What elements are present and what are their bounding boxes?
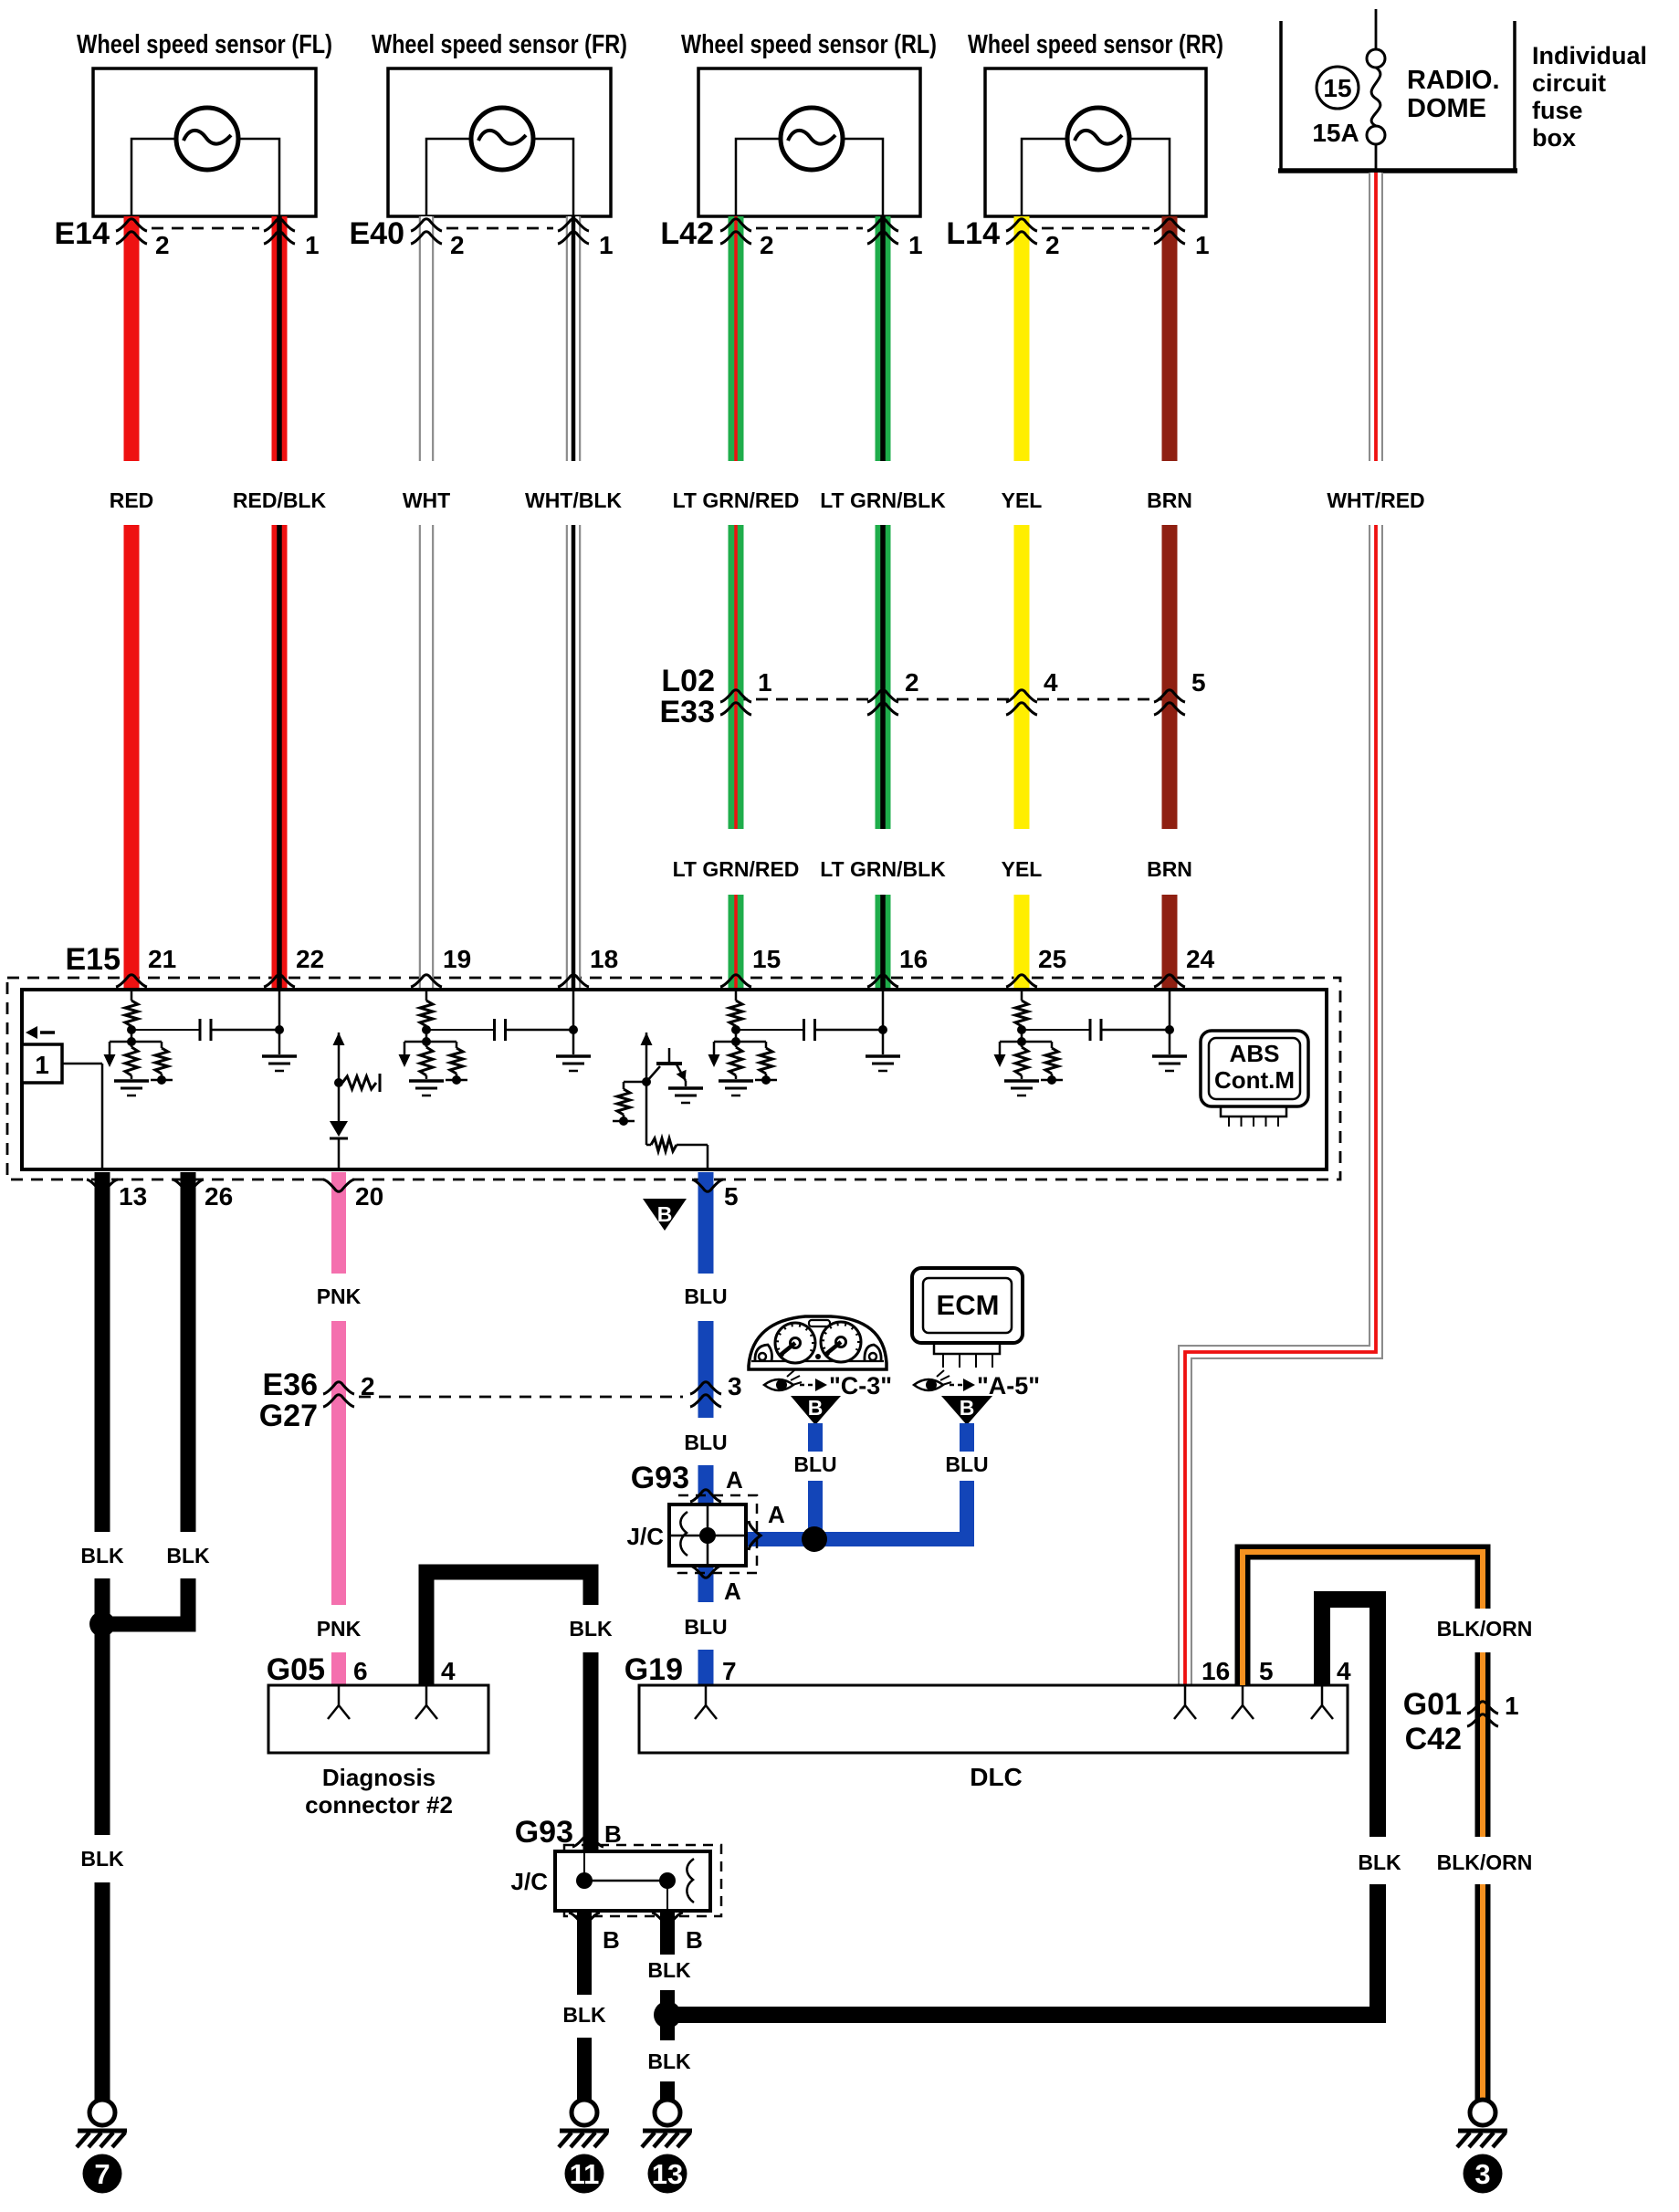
ground 7 bbox=[77, 2100, 127, 2194]
connector E14 label bbox=[55, 216, 110, 251]
resistor (input series, x=806) bbox=[729, 1001, 742, 1047]
svg-text:5: 5 bbox=[1259, 1657, 1274, 1685]
svg-text:BLK: BLK bbox=[166, 1544, 210, 1567]
svg-text:1: 1 bbox=[35, 1051, 49, 1079]
wire label YEL (upper) bbox=[1002, 488, 1043, 512]
svg-text:E14: E14 bbox=[55, 216, 110, 251]
resistor (input series, x=144) bbox=[125, 1001, 138, 1047]
resistor (pull-down, x=1119) bbox=[1015, 1047, 1028, 1079]
svg-text:DOME: DOME bbox=[1407, 94, 1486, 123]
pin number 2 (L02/E33) bbox=[905, 668, 919, 697]
resistor (bias, x=500) bbox=[450, 1042, 463, 1079]
connector E15 terminal pin 22 bbox=[264, 975, 295, 987]
svg-text:E40: E40 bbox=[350, 216, 405, 251]
wire label BLK (above junction) bbox=[647, 1958, 691, 1982]
svg-text:L42: L42 bbox=[660, 216, 714, 251]
pin number 5 (ABS lower connector) bbox=[724, 1182, 739, 1211]
svg-text:2: 2 bbox=[905, 668, 919, 697]
junction box G93 J/C (lower) bbox=[555, 1851, 710, 1911]
svg-text:B: B bbox=[960, 1396, 975, 1420]
wire BLK (ABS-26 to junction) bbox=[102, 1172, 188, 1624]
pin number 1 (E14) bbox=[305, 231, 320, 259]
wire (fuse to box exit) bbox=[1375, 144, 1378, 171]
J/C label (lower G93) bbox=[511, 1868, 549, 1895]
pin number 3 (E36/G27) bbox=[728, 1372, 742, 1400]
svg-text:ECM: ECM bbox=[937, 1289, 1000, 1321]
svg-text:BLU: BLU bbox=[684, 1615, 727, 1639]
svg-text:YEL: YEL bbox=[1002, 857, 1043, 881]
wire (resistor to pin 5) bbox=[707, 1145, 709, 1169]
svg-text:LT GRN/RED: LT GRN/RED bbox=[673, 857, 800, 881]
ground (transistor emitter) bbox=[668, 1088, 703, 1103]
svg-text:G01: G01 bbox=[1403, 1687, 1462, 1722]
wire label WHT (upper) bbox=[403, 488, 450, 512]
node (rail, x=500) bbox=[446, 1075, 467, 1085]
wire BLK (DLC-4 to ground junction) bbox=[1322, 1599, 1378, 2023]
wire (node to capacitor, x=806) bbox=[736, 1029, 804, 1031]
sense arrow (x=782) bbox=[708, 1042, 720, 1067]
pin number 5 (L02/E33) bbox=[1191, 668, 1206, 697]
triangle B (to sheet B) at ABS-5 bbox=[643, 1199, 687, 1231]
svg-text:7: 7 bbox=[94, 2158, 110, 2190]
svg-text:box: box bbox=[1532, 124, 1576, 152]
pin number 6 (G05) bbox=[353, 1657, 368, 1685]
pin number 4 (G05) bbox=[441, 1657, 456, 1685]
individual circuit fuse box bbox=[1278, 21, 1647, 171]
svg-text:15A: 15A bbox=[1312, 119, 1359, 147]
wire BLK (ABS-13 to ground 7) bbox=[95, 1172, 110, 2100]
connector E15 lower terminal at x=371 bbox=[323, 1179, 354, 1191]
wire BLU (ABS-5 to G93 J/C) bbox=[698, 1172, 714, 1504]
resistor (output series to pin 5) bbox=[646, 1082, 708, 1151]
wire label BLU at (773,1428) bbox=[684, 1284, 727, 1308]
node (pin 20 branch) bbox=[334, 1078, 343, 1087]
wheel speed sensor (RR) box bbox=[985, 68, 1206, 216]
connector E14 pin 2 terminals bbox=[116, 219, 147, 244]
resistor (pull-down, x=806) bbox=[729, 1047, 742, 1079]
pin letter B (G93 bottom right) bbox=[686, 1926, 703, 1954]
wire (sensor FL internal) bbox=[131, 139, 279, 216]
resistor (pin 20 branch, horizontal) bbox=[342, 1074, 380, 1092]
wire (node to diode) bbox=[338, 1083, 341, 1121]
connector G19/DLC pin 4 terminal fork bbox=[1311, 1685, 1333, 1719]
pin number 1 (L14) bbox=[1195, 231, 1210, 259]
svg-text:16: 16 bbox=[899, 945, 928, 973]
connector L42 pin 1 terminals bbox=[867, 219, 898, 244]
wire label WHT/RED (upper) bbox=[1327, 488, 1424, 512]
node (base resistor rail) bbox=[613, 1116, 635, 1126]
ground (internal, x=628) bbox=[556, 1056, 591, 1071]
svg-text:18: 18 bbox=[590, 945, 618, 973]
wire PNK (ABS-20 to G05-6) bbox=[331, 1172, 346, 1685]
connector E15 terminal pin 24 bbox=[1154, 975, 1185, 987]
svg-text:4: 4 bbox=[1337, 1657, 1351, 1685]
connector L02/E33 terminal at x=1281 bbox=[1154, 690, 1185, 715]
instrument cluster icon bbox=[749, 1316, 887, 1369]
wire label BRN (mid) bbox=[1147, 857, 1192, 881]
pin number 2 (L42) bbox=[760, 231, 774, 259]
connector E15 terminal pin 21 bbox=[116, 975, 147, 987]
capacitor (filter, x=225.0) bbox=[200, 1019, 211, 1041]
svg-text:G19: G19 bbox=[624, 1652, 683, 1687]
DLC caption bbox=[970, 1763, 1023, 1791]
wire (ABS input from pin at x=1119) bbox=[1021, 990, 1023, 1001]
node (sense, x=1119) bbox=[1000, 1037, 1052, 1046]
junction box G93 J/C bbox=[669, 1504, 746, 1566]
svg-text:BLK: BLK bbox=[80, 1544, 124, 1567]
pin number 26 (ABS lower connector) bbox=[205, 1182, 233, 1211]
pin number 2 (E36/G27) bbox=[361, 1372, 375, 1400]
svg-text:Diagnosis: Diagnosis bbox=[322, 1764, 435, 1791]
connector E15 lower terminal at x=112 bbox=[87, 1179, 118, 1191]
wire label BLU at (773,1790) bbox=[684, 1615, 727, 1639]
wire (return pin to ground, x=1281) bbox=[1169, 990, 1171, 1054]
pin number 25 (E15) bbox=[1038, 945, 1066, 973]
pin number 16 (DLC) bbox=[1202, 1657, 1230, 1685]
svg-text:E36: E36 bbox=[263, 1368, 319, 1402]
connector G19 / DLC box bbox=[639, 1685, 1348, 1753]
wire label BLK at (112,1712) bbox=[80, 1544, 124, 1567]
svg-text:LT GRN/BLK: LT GRN/BLK bbox=[820, 488, 946, 512]
wire BLU (G93 J/C to junction) bbox=[746, 1532, 822, 1546]
wire BLK (G93 J/C to ground 13) bbox=[660, 1911, 675, 2100]
wire label LT GRN/BLK (mid) bbox=[820, 857, 946, 881]
svg-text:15: 15 bbox=[752, 945, 781, 973]
J/C label (upper G93) bbox=[627, 1523, 665, 1550]
pin number 13 (ABS lower connector) bbox=[119, 1182, 147, 1211]
ABS box top border bbox=[22, 988, 1327, 991]
wire (capacitor to return, x=1281) bbox=[1101, 1029, 1170, 1032]
connector E40 pin 2 terminals bbox=[411, 219, 442, 244]
svg-text:BLU: BLU bbox=[684, 1431, 727, 1454]
wire label RED (upper) bbox=[110, 488, 154, 512]
svg-text:13: 13 bbox=[119, 1182, 147, 1211]
ECM module icon bbox=[912, 1268, 1023, 1368]
svg-text:A: A bbox=[726, 1466, 743, 1494]
svg-text:4: 4 bbox=[441, 1657, 456, 1685]
svg-text:BLK/ORN: BLK/ORN bbox=[1437, 1617, 1533, 1641]
pin number 20 (ABS lower connector) bbox=[355, 1182, 383, 1211]
resistor (input series, x=467) bbox=[420, 1001, 433, 1047]
wire label BLK/ORN (upper) bbox=[1437, 1617, 1533, 1641]
svg-text:BLK: BLK bbox=[569, 1617, 613, 1641]
svg-text:J/C: J/C bbox=[627, 1523, 665, 1550]
svg-text:2: 2 bbox=[361, 1372, 375, 1400]
triangle B (ECM) bbox=[941, 1396, 992, 1425]
junction (x=967) bbox=[878, 1025, 887, 1034]
view eye to "C-3" bbox=[764, 1370, 892, 1400]
wire YEL (L14-2 to E15-25) bbox=[1014, 216, 1030, 990]
svg-text:BLK: BLK bbox=[562, 2003, 606, 2027]
wire BRN (L14-1 to E15-24) bbox=[1162, 216, 1178, 990]
svg-text:B: B bbox=[657, 1202, 673, 1226]
ABS Cont.M emblem bbox=[1201, 1031, 1308, 1127]
connector G27 label bbox=[259, 1399, 318, 1433]
pin letter B (G93 top) bbox=[604, 1820, 622, 1848]
connector L14 label bbox=[946, 216, 1000, 251]
connector E14 dashed link bbox=[152, 227, 259, 230]
svg-text:1: 1 bbox=[599, 231, 614, 259]
wire (node to capacitor, x=144) bbox=[131, 1029, 200, 1031]
connector E15 terminal pin 18 bbox=[558, 975, 589, 987]
wire label LT GRN/RED (mid) bbox=[673, 857, 800, 881]
svg-text:BLK/ORN: BLK/ORN bbox=[1437, 1850, 1533, 1874]
view eye to "A-5" bbox=[914, 1370, 1040, 1400]
connector G93 label (upper) bbox=[631, 1461, 689, 1495]
svg-text:2: 2 bbox=[155, 231, 170, 259]
wire (node to capacitor, x=467) bbox=[426, 1029, 495, 1031]
BLU labels at junction bbox=[793, 1452, 988, 1476]
junction box G93 J/C dashed boundary bbox=[678, 1495, 757, 1573]
svg-text:BLK: BLK bbox=[1358, 1850, 1401, 1874]
svg-text:"C-3": "C-3" bbox=[829, 1372, 892, 1400]
diode (to pin 20) bbox=[330, 1121, 348, 1138]
svg-text:BLK: BLK bbox=[647, 1958, 691, 1982]
connector L02/E33 terminal at x=967 bbox=[867, 690, 898, 715]
resistor (bias, x=1152) bbox=[1045, 1042, 1058, 1079]
connector E36/G27 dashed link bbox=[359, 1396, 683, 1399]
pin number 4 (DLC) bbox=[1337, 1657, 1351, 1685]
wire BLK/ORN (DLC-5 to G01/C42 and ground 3) bbox=[1243, 1552, 1483, 2100]
junction of BLK wires bbox=[89, 1611, 115, 1637]
svg-text:RED/BLK: RED/BLK bbox=[233, 488, 327, 512]
connector G01/C42 terminal pin 1 bbox=[1467, 1702, 1498, 1726]
svg-text:6: 6 bbox=[353, 1657, 368, 1685]
svg-text:B: B bbox=[603, 1926, 620, 1954]
connector E15 terminal pin 25 bbox=[1006, 975, 1037, 987]
svg-text:4: 4 bbox=[1044, 668, 1058, 697]
svg-text:WHT/RED: WHT/RED bbox=[1327, 488, 1424, 512]
node (rail, x=1152) bbox=[1041, 1075, 1063, 1085]
wire (capacitor to return, x=967) bbox=[815, 1029, 884, 1032]
pin number 2 (E14) bbox=[155, 231, 170, 259]
connector G93 terminal A (bottom) bbox=[690, 1566, 721, 1578]
connector L42 dashed link bbox=[756, 227, 863, 230]
pin number 16 (E15) bbox=[899, 945, 928, 973]
wire WHT/RED (fuse box to DLC-16) bbox=[1185, 173, 1376, 1685]
wire label PNK at (371,1792) bbox=[317, 1617, 362, 1641]
wheel speed sensor (RL) box bbox=[698, 68, 920, 216]
wire RED (E14-2 to E15-21) bbox=[124, 216, 140, 990]
connector E36 label bbox=[263, 1368, 319, 1402]
ground 3 bbox=[1457, 2100, 1507, 2194]
pin number 4 (L02/E33) bbox=[1044, 668, 1058, 697]
ABS control module box bbox=[22, 990, 1327, 1169]
svg-text:A: A bbox=[768, 1501, 785, 1528]
fuse rating 15A bbox=[1312, 119, 1359, 147]
ABS control module dashed boundary bbox=[7, 978, 1340, 1179]
node (rail, x=839) bbox=[755, 1075, 777, 1085]
svg-text:2: 2 bbox=[450, 231, 465, 259]
wire label YEL (mid) bbox=[1002, 857, 1043, 881]
Diagnosis connector #2 caption bbox=[305, 1764, 453, 1819]
connector E33 label bbox=[660, 695, 716, 729]
svg-text:ABS: ABS bbox=[1230, 1040, 1280, 1067]
node (x=144) bbox=[127, 1025, 136, 1034]
connector L14 pin 1 terminals bbox=[1154, 219, 1185, 244]
wire BLK (G93 J/C to ground 11) bbox=[577, 1911, 592, 2100]
sense arrow (pin 20 branch) bbox=[333, 1033, 345, 1083]
wire (return pin to ground, x=306) bbox=[278, 990, 281, 1054]
wire (return pin to ground, x=967) bbox=[882, 990, 885, 1054]
svg-text:26: 26 bbox=[205, 1182, 233, 1211]
svg-text:16: 16 bbox=[1202, 1657, 1230, 1685]
svg-text:15: 15 bbox=[1323, 74, 1351, 102]
pin number 1 (E40) bbox=[599, 231, 614, 259]
svg-text:"A-5": "A-5" bbox=[977, 1372, 1040, 1400]
svg-text:BLU: BLU bbox=[945, 1452, 988, 1476]
wire label BLU at (773,1588) bbox=[684, 1431, 727, 1454]
junction (x=628) bbox=[569, 1025, 578, 1034]
node (sense, x=806) bbox=[714, 1037, 766, 1046]
connector E40 pin 1 terminals bbox=[558, 219, 589, 244]
svg-text:2: 2 bbox=[1045, 231, 1060, 259]
pin number 1 (L02/E33) bbox=[758, 668, 772, 697]
svg-text:YEL: YEL bbox=[1002, 488, 1043, 512]
svg-text:Cont.M: Cont.M bbox=[1214, 1066, 1295, 1094]
svg-text:11: 11 bbox=[570, 2158, 600, 2190]
wire BLU (cluster to junction) bbox=[808, 1423, 823, 1539]
ground (internal, x=967) bbox=[866, 1056, 900, 1071]
connector G19 label bbox=[624, 1652, 683, 1687]
connector L42 pin 2 terminals bbox=[720, 219, 751, 244]
fuse 15 (15A RADIO.DOME) bbox=[1367, 49, 1385, 144]
sense arrow (x=120) bbox=[104, 1042, 116, 1067]
svg-text:24: 24 bbox=[1186, 945, 1215, 973]
svg-text:3: 3 bbox=[728, 1372, 742, 1400]
svg-text:G27: G27 bbox=[259, 1399, 318, 1433]
resistor (input series, x=1119) bbox=[1015, 1001, 1028, 1047]
node (sense, x=467) bbox=[404, 1037, 456, 1046]
pin number 1 (G01/C42) bbox=[1505, 1692, 1519, 1720]
connector G05 pin 6 terminal fork bbox=[328, 1685, 350, 1719]
connector E15 terminal pin 19 bbox=[411, 975, 442, 987]
wire (ABS input from pin at x=806) bbox=[735, 990, 738, 1001]
wire (sensor FR internal) bbox=[426, 139, 573, 216]
ground (internal, x=1119) bbox=[1004, 1081, 1039, 1096]
svg-text:B: B bbox=[808, 1396, 824, 1420]
svg-text:E15: E15 bbox=[66, 942, 121, 977]
connector G19/DLC pin 7 terminal fork bbox=[695, 1685, 717, 1719]
junction (BLK ground bus) bbox=[654, 2001, 681, 2029]
wheel speed sensor (FR) label bbox=[372, 30, 627, 59]
svg-text:BLU: BLU bbox=[793, 1452, 836, 1476]
connector E36/G27 terminal pin 3 bbox=[690, 1382, 721, 1407]
wheel speed sensor (RL) label bbox=[681, 30, 937, 59]
svg-text:PNK: PNK bbox=[317, 1617, 362, 1641]
svg-text:1: 1 bbox=[1195, 231, 1210, 259]
pin number 7 (G19) bbox=[722, 1657, 737, 1685]
connector L14 pin 2 terminals bbox=[1006, 219, 1037, 244]
wire (ABS input from pin at x=467) bbox=[425, 990, 428, 1001]
wire (fuse feed) bbox=[1375, 9, 1378, 49]
svg-text:fuse: fuse bbox=[1532, 97, 1583, 124]
ground (internal, x=144) bbox=[114, 1081, 149, 1096]
connector E15 terminal pin 16 bbox=[867, 975, 898, 987]
svg-text:22: 22 bbox=[296, 945, 324, 973]
AC signal generator symbol (RL) bbox=[781, 108, 843, 170]
wire (sensor RR internal) bbox=[1022, 139, 1170, 216]
pin letter A (G93 top) bbox=[726, 1466, 743, 1494]
wire (return pin to ground, x=628) bbox=[572, 990, 575, 1054]
svg-text:B: B bbox=[604, 1820, 622, 1848]
svg-text:LT GRN/RED: LT GRN/RED bbox=[673, 488, 800, 512]
wire label BLK (below junction) bbox=[647, 2050, 691, 2073]
wire BLU (G93 J/C to G19-7) bbox=[698, 1566, 714, 1685]
junction (x=1281) bbox=[1165, 1025, 1174, 1034]
svg-text:Wheel speed sensor (FR): Wheel speed sensor (FR) bbox=[372, 30, 627, 59]
ABS box bottom border bbox=[22, 1168, 1327, 1171]
ground (internal, x=1281) bbox=[1152, 1056, 1187, 1071]
connector G05 label bbox=[267, 1652, 325, 1687]
svg-text:connector #2: connector #2 bbox=[305, 1791, 453, 1819]
wire label BLK at (112,2044) bbox=[80, 1847, 124, 1871]
svg-text:BLK: BLK bbox=[80, 1847, 124, 1871]
svg-text:RADIO.: RADIO. bbox=[1407, 66, 1500, 95]
pin number 24 (E15) bbox=[1186, 945, 1215, 973]
svg-text:circuit: circuit bbox=[1532, 69, 1606, 97]
pin number 2 (L14) bbox=[1045, 231, 1060, 259]
connector G93 terminal B (top) bbox=[572, 1835, 603, 1847]
pin number 21 (E15) bbox=[148, 945, 176, 973]
pin number 2 (E40) bbox=[450, 231, 465, 259]
node (x=467) bbox=[422, 1025, 431, 1034]
pin number 15 (E15) bbox=[752, 945, 781, 973]
wire WHT/BLK (E40-1 to E15-18) bbox=[566, 216, 582, 990]
connector E14 pin 1 terminals bbox=[264, 219, 295, 244]
connector G93 terminal B (bottom left) bbox=[569, 1913, 600, 1924]
connector G93 terminal A (top) bbox=[690, 1490, 721, 1502]
connector E40 label bbox=[350, 216, 405, 251]
connector L02 label bbox=[661, 664, 715, 698]
wire label BLK (ground 11 leg) bbox=[562, 2003, 606, 2027]
ground 11 bbox=[559, 2100, 609, 2194]
connector G19/DLC pin 16 terminal fork bbox=[1174, 1685, 1196, 1719]
wire (sensor RL internal) bbox=[736, 139, 883, 216]
svg-text:LT GRN/BLK: LT GRN/BLK bbox=[820, 857, 946, 881]
connector L02/E33 dashed line bbox=[736, 698, 1170, 701]
wire RED/BLK (E14-1 to E15-22) bbox=[272, 216, 288, 990]
pin number 5 (DLC) bbox=[1259, 1657, 1274, 1685]
svg-text:G05: G05 bbox=[267, 1652, 325, 1687]
wire (node to capacitor, x=1119) bbox=[1022, 1029, 1090, 1031]
ground 13 bbox=[642, 2100, 692, 2194]
connector G05 (Diagnosis connector #2) box bbox=[268, 1685, 488, 1753]
svg-text:7: 7 bbox=[722, 1657, 737, 1685]
connector G93 terminal B (bottom right) bbox=[652, 1913, 683, 1924]
transistor Q (ABS output driver) bbox=[646, 1048, 690, 1086]
connector C42 label bbox=[1405, 1722, 1462, 1756]
wire label BLK (right) bbox=[1358, 1850, 1401, 1874]
sense arrow (pin 5 branch) bbox=[641, 1033, 653, 1082]
svg-text:Individual: Individual bbox=[1532, 42, 1647, 69]
resistor (pull-down, x=467) bbox=[420, 1047, 433, 1079]
wire label PNK at (371,1428) bbox=[317, 1284, 362, 1308]
capacitor (filter, x=1200.0) bbox=[1090, 1019, 1101, 1041]
BLU junction bbox=[802, 1526, 827, 1552]
sense arrow (x=443) bbox=[399, 1042, 411, 1067]
connector G05 pin 4 terminal fork bbox=[415, 1685, 437, 1719]
svg-text:3: 3 bbox=[1474, 2158, 1490, 2190]
wire BLK (junction to DLC-4 leg) bbox=[667, 2007, 1378, 2023]
resistor (pull-down, x=144) bbox=[125, 1047, 138, 1079]
ground (internal, x=306) bbox=[262, 1056, 297, 1071]
AC signal generator symbol (FR) bbox=[471, 108, 533, 170]
connector G93 label (lower) bbox=[515, 1815, 573, 1850]
capacitor (filter, x=886.5) bbox=[804, 1019, 815, 1041]
pin number 18 (E15) bbox=[590, 945, 618, 973]
capacitor (filter, x=547.5) bbox=[495, 1019, 506, 1041]
